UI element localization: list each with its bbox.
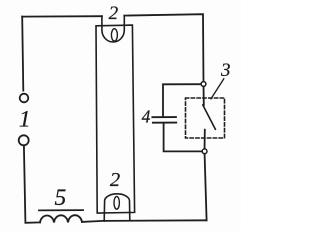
filament electrode 2 top: pins and U-stirrup <box>102 16 124 42</box>
wire: left vertical from lower terminal to bottom-left corner <box>24 146 26 222</box>
filament electrode 2 bottom: pins and arch stirrup <box>104 194 130 221</box>
wire: capacitor branch lower run to node B <box>164 124 205 152</box>
filament electrode 2 top: centre loop <box>111 29 117 41</box>
capacitor C4 top plate <box>152 116 176 118</box>
svg-text:5: 5 <box>55 185 67 211</box>
inductor L5 winding junction dots <box>53 220 55 222</box>
starter S3 switch blade (diagonal) <box>203 105 216 129</box>
node A junction circle <box>201 82 206 87</box>
node B junction circle <box>202 149 207 154</box>
wire: top conductor from left corner to top-left lamp pin <box>22 15 102 17</box>
terminal 1 lower contact circle <box>19 135 29 145</box>
terminal 1 upper contact circle <box>20 94 29 103</box>
capacitor C4 bottom plate <box>153 122 176 124</box>
svg-text:3: 3 <box>220 60 231 81</box>
wire: right vertical from node B to bottom-right corner <box>205 151 207 220</box>
wire: right vertical from node A into starter upper contact <box>203 84 205 105</box>
lamp tube envelope <box>96 25 135 213</box>
label 3 leader line <box>211 79 224 99</box>
wire: bottom conductor from ballast to bottom-right corner <box>82 220 207 222</box>
wire: left vertical drop to terminal 1 upper contact <box>22 17 23 91</box>
wire: top conductor from top-right lamp pin to right corner and down to node A <box>124 14 203 84</box>
starter 3 dashed enclosure <box>186 98 225 138</box>
svg-text:2: 2 <box>109 3 119 24</box>
starter S3 lower contact stub down to node B <box>204 130 206 152</box>
inductor L5 core bar <box>39 209 83 211</box>
wire: bottom conductor left segment into ballast <box>25 221 40 223</box>
svg-text:2: 2 <box>110 169 120 191</box>
inductor L5 ballast winding (three arcs) <box>40 215 82 222</box>
wire: capacitor branch upper run from node A <box>163 84 204 116</box>
svg-text:4: 4 <box>142 106 151 126</box>
filament electrode 2 bottom: centre loop <box>114 196 119 209</box>
svg-text:1: 1 <box>19 107 31 133</box>
